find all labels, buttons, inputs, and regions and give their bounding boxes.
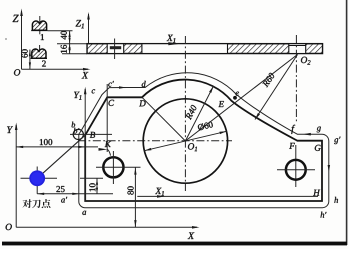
dimension 60 line — [29, 50, 31, 70]
label K — [105, 141, 112, 147]
dimension 16 line — [69, 44, 71, 54]
dimension 100 text — [40, 139, 52, 145]
X axis label (bottom) — [188, 233, 195, 240]
label G — [315, 145, 321, 151]
label f — [291, 125, 295, 134]
O origin label (bottom) — [6, 224, 12, 230]
arrow on path f-g — [303, 133, 311, 136]
label d — [142, 81, 146, 87]
label B — [90, 132, 95, 138]
O1-D radial line — [142, 97, 185, 141]
extension line plate bottom left — [62, 53, 87, 55]
tool path loop — [79, 73, 329, 208]
tool 2 label — [42, 61, 46, 67]
label E — [218, 101, 224, 107]
label O2 — [301, 57, 311, 65]
label e — [236, 92, 239, 96]
O origin label (top view) — [14, 69, 20, 75]
Z axis (machine) — [21, 11, 23, 69]
part contour outline — [85, 80, 322, 201]
Z1 axis — [88, 14, 90, 44]
dimension 10 text — [89, 183, 95, 191]
dust speck — [5, 38, 7, 40]
right hole — [286, 160, 306, 180]
vertical extension at C — [106, 84, 108, 152]
phi60 dimension diagonal — [144, 131, 226, 150]
label duidaodian — [23, 199, 51, 208]
left hole v centerline — [112, 151, 114, 184]
hatched section segment 3 — [228, 44, 289, 53]
label O1 — [188, 143, 197, 151]
X1 axis label (front) — [155, 188, 164, 196]
O1 vertical centerline — [184, 36, 186, 191]
tool start point (blue) — [29, 170, 45, 186]
R60 dimension line — [255, 55, 298, 120]
line through B — [70, 133, 112, 135]
X axis (machine, top) — [22, 68, 89, 70]
tool 1 cutter symbol — [32, 21, 46, 30]
right hole step line — [289, 45, 306, 47]
plate section outline — [87, 44, 323, 54]
page bottom border — [2, 242, 347, 246]
O1-O2 center line — [185, 55, 297, 142]
X axis label (top view) — [82, 72, 89, 79]
label h — [334, 197, 338, 203]
X1 axis arrow on plate edge — [168, 42, 180, 45]
Y1 axis — [84, 89, 86, 201]
tool 2 cutter symbol — [32, 49, 46, 58]
arrow on path c-d — [119, 86, 126, 89]
e junction dot — [233, 96, 237, 100]
extension line plate top left — [57, 43, 87, 45]
label g — [317, 127, 321, 133]
dimension 40 line — [69, 31, 71, 44]
hatched section segment 2 — [124, 44, 142, 53]
left hole h centerline — [96, 166, 141, 168]
right hole vertical centerline — [295, 145, 297, 187]
dimension 40 text — [61, 31, 67, 40]
left hole — [103, 157, 123, 177]
phi60 text — [197, 121, 213, 131]
label F — [289, 143, 295, 149]
R40 text — [185, 104, 197, 120]
hatched section segment 1 — [87, 44, 107, 53]
big circle phi60 — [143, 99, 227, 183]
label c — [92, 89, 95, 93]
R40 radial line — [185, 86, 213, 141]
label D — [139, 100, 146, 106]
dimension 25 line — [37, 193, 113, 195]
Y axis (machine) — [15, 125, 17, 227]
page right border — [346, 0, 348, 245]
dimension 100 line — [16, 146, 98, 148]
label a — [82, 211, 86, 215]
tool 2 centerline — [39, 45, 41, 58]
X1 axis label (side view) — [167, 35, 176, 43]
arrow on path g-h down — [328, 165, 331, 172]
label g' — [334, 137, 340, 144]
left hole centerline (side view) — [114, 39, 116, 60]
hatched section segment 4 — [306, 44, 323, 53]
label c' — [108, 81, 114, 87]
dimension 10 line — [96, 178, 98, 193]
cutter circle at B — [73, 129, 83, 139]
Y axis label — [7, 127, 13, 134]
left hole counterbore bar — [110, 46, 121, 49]
label b' — [74, 128, 80, 134]
dimension 25 text — [56, 186, 64, 192]
tool 1 label — [41, 34, 44, 40]
K arrow marker — [99, 148, 108, 151]
label b — [72, 122, 76, 128]
O1 horizontal centerline — [78, 140, 232, 142]
Y1 axis label — [74, 92, 81, 100]
O2 vertical centerline upper — [295, 35, 297, 122]
X axis (machine bottom) — [16, 226, 197, 228]
R60 text — [262, 72, 275, 87]
tool 1 centerline — [39, 16, 41, 34]
X1 axis front view — [137, 195, 318, 197]
extension line tool1 tip — [48, 30, 73, 32]
dimension 80 text — [128, 186, 134, 194]
start point crosshair h left — [21, 177, 58, 179]
Z1 axis label — [76, 20, 84, 28]
dimension 80 line — [134, 167, 136, 227]
start point crosshair h right — [80, 177, 103, 179]
approach line start point to B — [37, 135, 85, 178]
right hole h centerline — [277, 169, 315, 171]
Z axis label — [13, 15, 19, 22]
dimension 16 text — [61, 45, 67, 53]
dimension 60 text — [22, 49, 28, 57]
start point crosshair v — [36, 167, 38, 194]
K leader curve — [108, 149, 111, 155]
label C — [109, 100, 115, 106]
label a' — [61, 197, 67, 203]
label H — [313, 190, 320, 196]
label h' — [321, 212, 327, 218]
